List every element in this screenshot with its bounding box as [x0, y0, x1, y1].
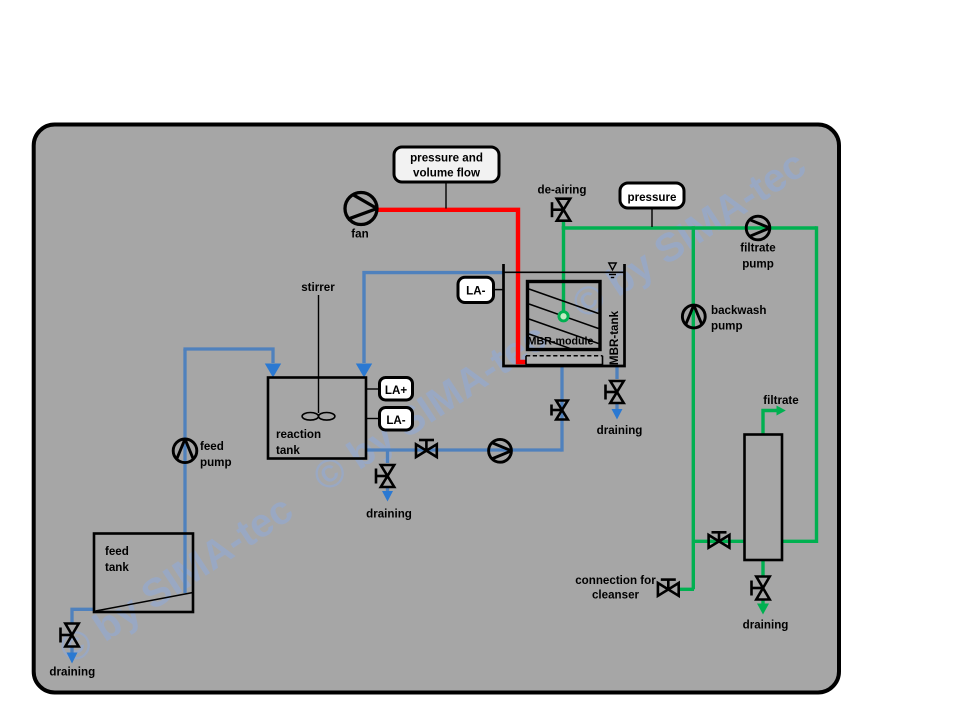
blue arrow reaction draining [382, 491, 393, 502]
diffuser dashed box [526, 356, 603, 365]
svg-text:stirrer: stirrer [301, 281, 335, 294]
svg-text:backwash: backwash [711, 304, 766, 317]
filtrate column [745, 435, 783, 561]
green pipe: backwash to column left [693, 540, 745, 543]
green pipe: backwash riser [692, 226, 695, 589]
svg-text:LA-: LA- [386, 414, 405, 427]
aerator green circle [559, 312, 568, 321]
blue arrow feed draining [67, 653, 78, 664]
MBR riser valve [552, 401, 568, 420]
svg-text:tank: tank [105, 561, 129, 574]
LA- label box at MBR tank [458, 277, 494, 302]
MBR module hatch lines [529, 289, 599, 348]
green pipe: de-airing riser down to aerator [562, 220, 565, 315]
svg-text:pump: pump [200, 456, 232, 469]
LA+ label box [380, 378, 413, 401]
LA- label box (reaction tank) [380, 408, 413, 431]
svg-text:volume flow: volume flow [413, 167, 481, 180]
svg-text:draining: draining [597, 424, 643, 437]
green arrow column draining [757, 604, 769, 615]
feed tank diagonal [96, 593, 194, 612]
reaction outlet valve [416, 440, 437, 457]
green pipe: right riser and link to column right [782, 226, 817, 541]
svg-text:pressure: pressure [628, 191, 678, 204]
blue pipe: MBR overflow to reaction tank [364, 273, 504, 363]
blue pipe: reaction tank outlet run [366, 448, 562, 451]
blue arrow feed into reaction tank [265, 364, 281, 378]
svg-text:MBR-tank: MBR-tank [608, 310, 621, 365]
MBR tank water line [504, 271, 625, 273]
connector LA+ [366, 388, 380, 390]
reaction tank [268, 378, 366, 459]
MBR module [528, 282, 601, 350]
fan symbol [345, 193, 377, 225]
blue pipe: reaction drain branch [386, 450, 389, 463]
connector: pressure box stem [651, 208, 653, 227]
blue arrow overflow into reaction tank [356, 364, 372, 378]
blue arrow MBR draining [612, 409, 623, 420]
de-airing valve [552, 199, 570, 221]
svg-text:tank: tank [276, 444, 300, 457]
feed tank [94, 534, 193, 613]
filtrate pump [746, 216, 770, 240]
blue pipe: feed riser through feed pump [183, 349, 186, 593]
svg-text:pump: pump [742, 258, 774, 271]
blue pipe: riser to MBR tank bottom [560, 366, 563, 452]
svg-text:LA-: LA- [466, 284, 485, 297]
svg-text:feed: feed [105, 545, 129, 558]
stirrer shaft [318, 295, 320, 413]
feed drain valve [61, 624, 79, 647]
column drain valve [752, 577, 770, 600]
blue pipe: MBR right drain [615, 366, 618, 379]
connector LA- to MBR tank [494, 289, 504, 291]
backwash line valve to column [709, 532, 730, 547]
blue pipe: feed top run to reaction tank [183, 349, 273, 363]
red pressure line from fan to MBR diffuser [377, 210, 529, 362]
green pipe: top header [562, 226, 817, 229]
feed pump [173, 439, 197, 463]
reaction drain valve [376, 465, 394, 487]
svg-text:draining: draining [49, 666, 95, 679]
MBR tank walls [504, 264, 625, 366]
svg-text:pressure and: pressure and [410, 152, 483, 165]
cleanser valve [658, 580, 679, 596]
svg-text:LA+: LA+ [385, 384, 407, 397]
green pipe: cleanser stub [679, 588, 694, 591]
transfer pump [489, 439, 512, 462]
connector: pressure and volume flow box stem [445, 182, 447, 209]
svg-text:cleanser: cleanser [592, 589, 640, 602]
green pipe: filtrate outlet [763, 411, 778, 435]
svg-text:draining: draining [743, 619, 789, 632]
svg-text:fan: fan [351, 228, 368, 241]
water level nabla symbol [609, 263, 616, 278]
svg-text:connection for: connection for [575, 574, 656, 587]
svg-text:pump: pump [711, 320, 743, 333]
backwash pump [682, 305, 705, 328]
svg-text:feed: feed [200, 440, 224, 453]
pressure and volume flow label box [394, 147, 499, 182]
svg-text:filtrate: filtrate [763, 394, 799, 407]
svg-text:filtrate: filtrate [740, 242, 776, 255]
pressure label box [620, 183, 684, 208]
green arrow filtrate [777, 406, 786, 416]
stirrer propeller [302, 413, 335, 421]
MBR drain valve [606, 381, 624, 403]
blue pipe: feed tank outlet to drain valve [72, 609, 95, 623]
connector LA- reaction [366, 418, 380, 420]
svg-text:reaction: reaction [276, 428, 321, 441]
svg-text:MBR-module: MBR-module [528, 336, 594, 348]
green pipe: column drain [761, 560, 764, 576]
frame background panel [34, 125, 839, 693]
svg-text:draining: draining [366, 508, 412, 521]
svg-text:de-airing: de-airing [538, 184, 587, 197]
